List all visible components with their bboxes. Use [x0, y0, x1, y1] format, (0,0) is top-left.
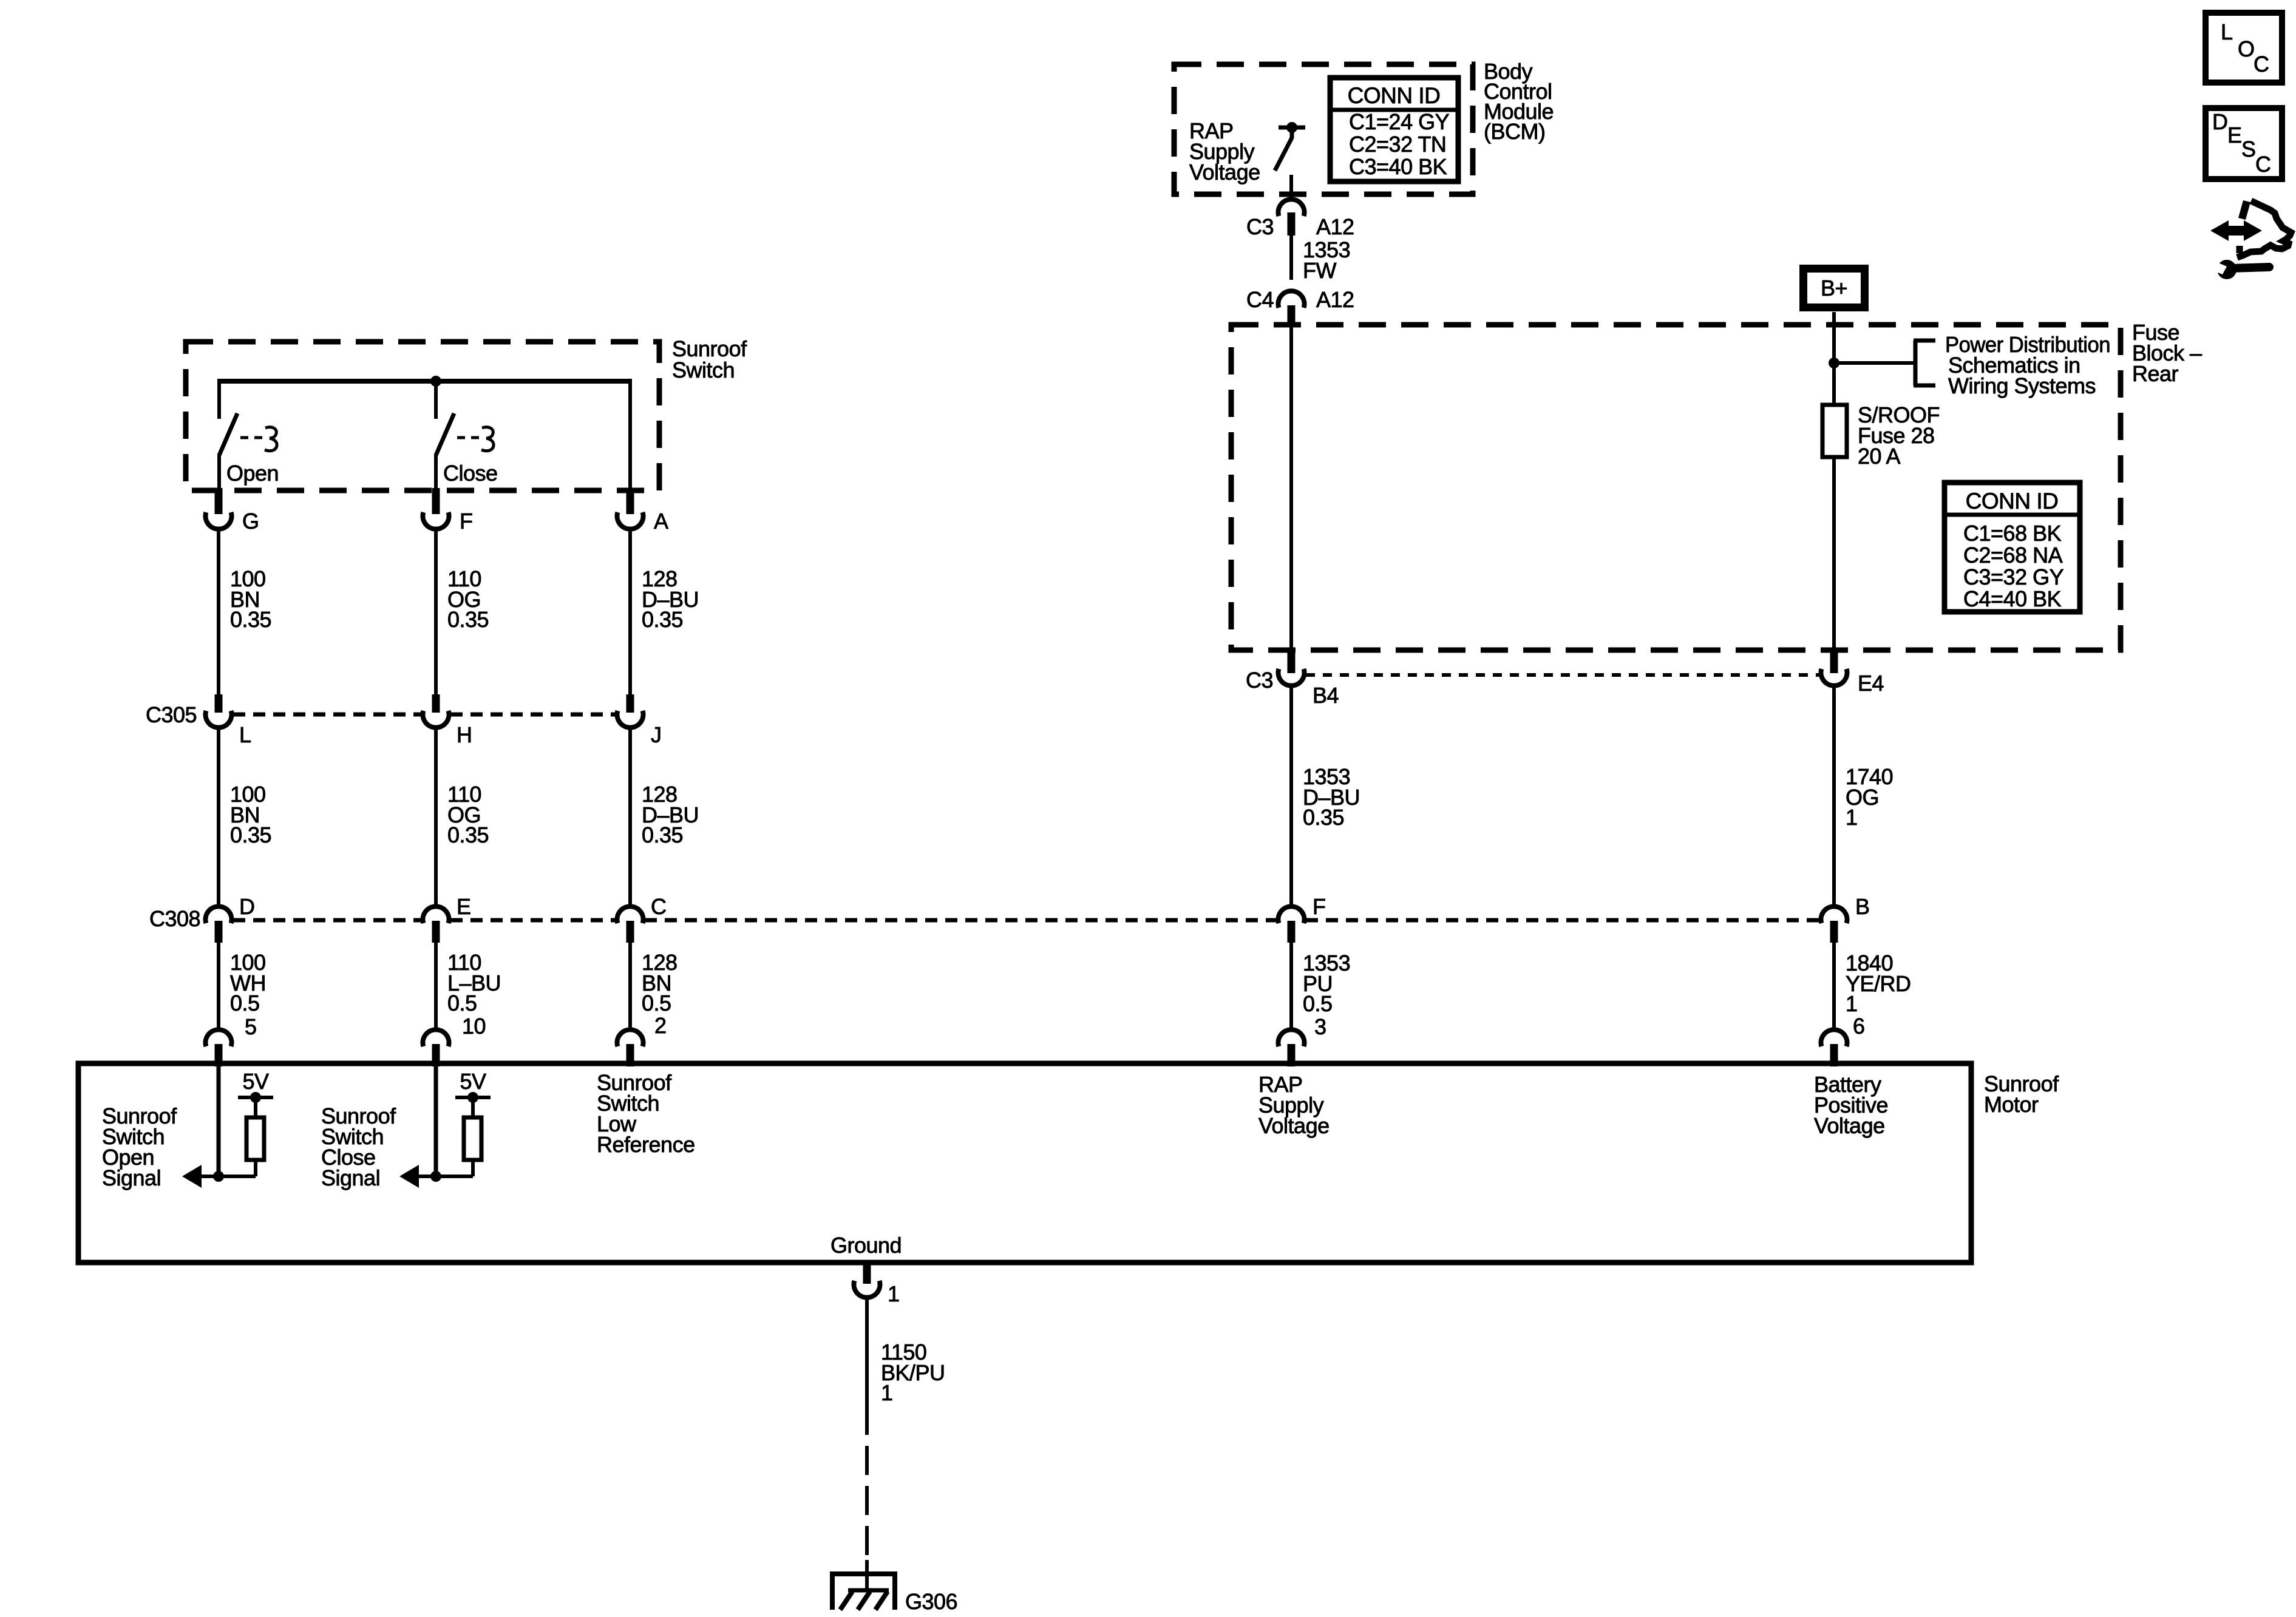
svg-text:A12: A12 [1316, 214, 1354, 239]
svg-text:C4=40 BK: C4=40 BK [1963, 586, 2062, 611]
label Sunroof Motor [1984, 1071, 2059, 1117]
wire D to pin 5 [217, 943, 220, 1032]
connector pin 6 (sunroof motor) [1821, 1029, 1847, 1066]
label Body Control Module (BCM) [1484, 59, 1554, 144]
svg-text:0.35: 0.35 [642, 607, 683, 632]
svg-text:5: 5 [245, 1014, 257, 1039]
svg-text:F: F [460, 509, 473, 534]
wire arrow close signal [413, 1175, 436, 1178]
connector C (C308) [617, 906, 644, 943]
svg-text:Open: Open [226, 461, 279, 486]
svg-text:S: S [2241, 137, 2256, 161]
label 110 L-BU 0.5 [447, 950, 501, 1015]
connector pin 3 (sunroof motor) [1279, 1029, 1305, 1066]
svg-text:0.5: 0.5 [1303, 991, 1333, 1016]
wire B to pin 6 [1832, 943, 1836, 1032]
resistor pull-up (open) [246, 1117, 264, 1160]
svg-text:C3=40 BK: C3=40 BK [1349, 154, 1447, 179]
svg-text:O: O [2238, 36, 2255, 61]
svg-text:FW: FW [1303, 258, 1336, 283]
label 100 BN 0.35 (upper) [230, 566, 271, 632]
LOC box [2206, 13, 2282, 83]
svg-text:Close: Close [443, 461, 498, 486]
svg-text:Voltage: Voltage [1814, 1113, 1885, 1138]
svg-text:Signal: Signal [102, 1165, 161, 1190]
svg-text:A: A [654, 509, 668, 534]
wire common bus inside switch [217, 381, 632, 488]
label RAP Supply Voltage (motor pin 3) [1258, 1072, 1330, 1138]
wire E to pin 10 [434, 943, 438, 1032]
fuse S/ROOF Fuse 28 20 A [1822, 405, 1847, 457]
svg-text:C308: C308 [149, 906, 200, 931]
label 1740 OG 1 [1846, 764, 1893, 830]
wire A to J [628, 528, 632, 696]
label 1840 YE/RD 1 [1846, 951, 1911, 1016]
svg-text:B+: B+ [1821, 276, 1847, 300]
svg-text:L: L [239, 722, 251, 747]
svg-text:Ground: Ground [830, 1233, 902, 1258]
svg-text:C2=68 NA: C2=68 NA [1963, 543, 2063, 568]
connector A [617, 488, 644, 529]
arrow open signal [182, 1165, 202, 1188]
wire resistor to junction (open) [219, 1160, 256, 1176]
connector C3/B4 (fuse block out) [1279, 651, 1305, 686]
connector F (switch) [423, 488, 449, 529]
svg-text:D: D [239, 894, 255, 919]
svg-text:C4: C4 [1246, 287, 1274, 312]
svg-text:C: C [651, 894, 667, 919]
svg-text:Voltage: Voltage [1189, 160, 1260, 185]
svg-text:C: C [2255, 152, 2271, 177]
sunroof motor box [78, 1063, 1971, 1263]
svg-text:0.35: 0.35 [447, 607, 489, 632]
svg-text:E: E [457, 894, 471, 919]
connector C3 (BCM) [1279, 199, 1305, 236]
svg-text:B4: B4 [1313, 683, 1339, 708]
svg-text:1: 1 [1846, 805, 1858, 830]
resistor pull-up (close) [464, 1117, 481, 1160]
label Sunroof Switch Close Signal [321, 1103, 396, 1190]
label 110 OG 0.35 (middle) [447, 782, 489, 847]
label 110 OG 0.35 (upper) [447, 566, 489, 632]
CONN ID table (fuse block) [1944, 483, 2080, 612]
wire L to D [217, 726, 220, 909]
bracket power distribution reference [1914, 341, 1935, 385]
svg-text:C3: C3 [1246, 214, 1274, 239]
node open signal junction [213, 1171, 224, 1182]
wire arrow open signal [195, 1175, 219, 1178]
label 1353 D-BU 0.35 [1303, 764, 1360, 830]
wire C to pin 2 [628, 943, 632, 1032]
svg-text:C1=24 GY: C1=24 GY [1349, 109, 1450, 134]
ground symbol G306 [830, 1573, 897, 1610]
wire C4 to C3/B4 [1289, 327, 1293, 653]
connector pin 2 (sunroof motor) [617, 1029, 644, 1066]
dashed connector row C308 [233, 918, 1819, 923]
dashed connector row B4-E4 [1306, 673, 1819, 677]
svg-text:(BCM): (BCM) [1484, 119, 1545, 144]
wire F to pin 3 [1289, 943, 1293, 1032]
svg-text:0.35: 0.35 [447, 822, 489, 847]
label RAP Supply Voltage (BCM pin) [1189, 118, 1260, 185]
svg-text:1: 1 [888, 1281, 900, 1306]
svg-text:J: J [651, 722, 662, 747]
wire ground dashed [865, 1430, 869, 1563]
node close signal junction [430, 1171, 441, 1182]
svg-text:E4: E4 [1858, 671, 1884, 696]
label 128 D-BU 0.35 (upper) [642, 566, 699, 632]
label Fuse Block - Rear [2132, 320, 2202, 386]
svg-text:C1=68 BK: C1=68 BK [1963, 521, 2062, 546]
wire ground solid upper [865, 1297, 869, 1430]
svg-text:G306: G306 [905, 1589, 957, 1614]
svg-text:20 A: 20 A [1858, 444, 1901, 469]
switch Close [436, 413, 494, 489]
label Sunroof Switch Low Reference [597, 1070, 695, 1157]
arrow close signal [399, 1165, 419, 1188]
svg-text:D: D [2212, 109, 2228, 134]
svg-text:1: 1 [1846, 991, 1858, 1016]
svg-text:3: 3 [1314, 1014, 1326, 1039]
svg-text:0.35: 0.35 [230, 607, 271, 632]
label Sunroof Switch [672, 336, 747, 382]
wire H to E [434, 726, 438, 909]
svg-text:Rear: Rear [2132, 361, 2179, 386]
switch Open [219, 413, 277, 489]
connector L (C305) [205, 694, 231, 728]
label Sunroof Switch Open Signal [102, 1103, 177, 1190]
svg-text:10: 10 [462, 1014, 486, 1039]
svg-text:Reference: Reference [597, 1132, 695, 1157]
svg-text:0.5: 0.5 [230, 991, 260, 1015]
svg-text:1: 1 [881, 1380, 893, 1405]
wire to power distribution reference [1834, 361, 1915, 365]
service icon: double arrow, panel outline, wrench [2210, 200, 2291, 279]
connector F (C308 row) [1279, 906, 1305, 943]
svg-text:6: 6 [1853, 1014, 1865, 1039]
fuse block dashed box [1231, 325, 2121, 650]
B+ terminal box [1804, 269, 1865, 308]
wire ground solid lower [865, 1560, 869, 1592]
svg-text:5V: 5V [242, 1069, 269, 1094]
wire E4 to B [1832, 686, 1836, 909]
svg-text:C3=32 GY: C3=32 GY [1963, 564, 2064, 589]
svg-text:CONN ID: CONN ID [1348, 83, 1441, 108]
connector pin 5 (sunroof motor) [205, 1029, 231, 1066]
svg-text:2: 2 [654, 1013, 667, 1038]
wire fuse to E4 [1832, 457, 1836, 653]
wire J to C [628, 726, 632, 909]
connector D (C308) [205, 906, 231, 943]
svg-text:C305: C305 [146, 702, 197, 727]
BCM dashed box [1174, 64, 1473, 194]
label 128 BN 0.5 [642, 950, 678, 1015]
wire 1353 FW [1289, 236, 1293, 280]
svg-text:C: C [2254, 52, 2269, 76]
svg-text:G: G [242, 509, 259, 534]
connector C4 (BCM) [1279, 291, 1305, 327]
connector E4 (fuse block out) [1821, 651, 1847, 686]
supply rail 5V (close) [455, 1092, 491, 1117]
label S/ROOF Fuse 28 20 A [1858, 402, 1940, 469]
sunroof switch dashed box [186, 342, 659, 490]
svg-text:Motor: Motor [1984, 1092, 2039, 1117]
connector pin 1 (ground out) [854, 1264, 880, 1298]
svg-text:0.35: 0.35 [1303, 805, 1344, 830]
wire pin 10 into motor [434, 1066, 438, 1176]
CONN ID table (BCM) [1330, 78, 1458, 181]
connector J (C305) [617, 694, 644, 728]
supply rail 5V (open) [238, 1092, 273, 1117]
connector E (C308) [423, 906, 449, 943]
label Battery Positive Voltage (motor pin 6) [1814, 1072, 1888, 1138]
svg-text:CONN ID: CONN ID [1966, 489, 2059, 514]
dashed connector row C305 [233, 713, 616, 717]
svg-text:0.5: 0.5 [642, 991, 671, 1015]
svg-text:Signal: Signal [321, 1165, 380, 1190]
svg-text:C3: C3 [1246, 668, 1273, 693]
svg-text:Wiring Systems: Wiring Systems [1948, 373, 2096, 398]
svg-text:H: H [457, 722, 472, 747]
label 1353 PU 0.5 [1303, 951, 1350, 1016]
wire B4 to F [1289, 686, 1293, 909]
svg-text:Switch: Switch [672, 358, 735, 382]
label 1353 FW [1303, 237, 1350, 283]
connector B (C308 row) [1821, 906, 1847, 943]
wire pin 5 into motor [217, 1066, 221, 1176]
wire BCM switch to C3 [1289, 175, 1293, 200]
svg-text:C2=32 TN: C2=32 TN [1349, 132, 1446, 157]
label 128 D-BU 0.35 (middle) [642, 782, 699, 847]
svg-text:L: L [2221, 19, 2233, 44]
label 1150 BK/PU 1 [881, 1340, 945, 1405]
node junction on B+ feed [1829, 358, 1839, 368]
switch inside BCM (RAP supply) [1275, 122, 1305, 171]
label 100 BN 0.35 (middle) [230, 782, 271, 847]
svg-text:E: E [2227, 123, 2242, 147]
svg-text:B: B [1855, 894, 1870, 919]
DESC box [2206, 108, 2282, 179]
svg-text:Voltage: Voltage [1258, 1113, 1330, 1138]
connector pin 10 (sunroof motor) [423, 1029, 449, 1066]
svg-text:0.35: 0.35 [230, 822, 271, 847]
svg-text:F: F [1313, 894, 1326, 919]
wire F to H [434, 528, 438, 696]
svg-text:0.35: 0.35 [642, 822, 683, 847]
wire resistor to junction (close) [436, 1160, 473, 1176]
svg-text:5V: 5V [460, 1069, 486, 1094]
wire B+ down to fuse [1832, 312, 1836, 405]
svg-text:0.5: 0.5 [447, 991, 477, 1015]
node common bus junction [430, 376, 441, 387]
connector G [205, 488, 231, 529]
wire G to L [217, 528, 220, 696]
label 100 WH 0.5 [230, 950, 266, 1015]
label Power Distribution Schematics in Wiring Systems [1945, 332, 2110, 398]
svg-text:A12: A12 [1316, 287, 1354, 312]
connector H (C305) [423, 694, 449, 728]
